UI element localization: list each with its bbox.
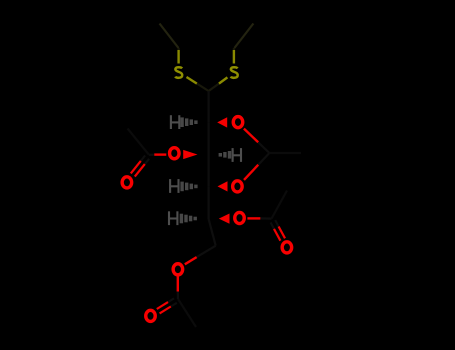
acetyl C3' C=O double bond line 2 red part [131,161,141,174]
bold wedge C4-O4 [218,181,228,191]
bond O2-CH(ring) dark half [258,142,269,153]
ethyl CH2-S2 bond dark half [233,48,235,50]
bold wedge C3-O3 [183,150,197,159]
bond O4-CH(ring) red half [244,165,258,180]
bond O3-C3' red part [154,153,166,155]
bond O6-C6' dark half [177,292,179,300]
acetyl C6' methyl wire [178,299,196,327]
sulfur S1 [175,67,182,78]
hydrogen H3 label [233,148,241,162]
acetyl C3' C=O double bond line 2 dark part [141,156,145,161]
ring CH methyl wire [269,152,301,154]
hashed wedge C2-H2 [180,117,197,127]
acetyl C5' methyl wire [272,191,288,219]
bond O5-C5' red half [247,217,260,219]
sulfur S2 [231,67,238,78]
ethyl CH3 (left) wire [160,24,179,49]
ethyl CH2-S1 bond olive half [177,50,179,64]
bond C4-C5 wire [208,186,210,219]
acetyl C3' C=O double bond line 1 red part [135,164,145,177]
bond O5-C5' dark half [260,217,271,219]
acetyl C6' C=O double bond line 1 dark part [171,303,177,307]
oxygen O3 [170,148,180,159]
ethyl CH3 (right) wire [234,24,253,49]
hashed wedge C5-H5 [180,214,197,224]
acetyl C5' C=O double bond line 1 dark part [275,220,278,226]
ethyl CH2-S2 bond olive half [233,50,235,64]
bond S2-C1 olive half [219,77,228,83]
oxygen O5 [235,212,245,223]
bond S2-C1 dark half [209,84,219,91]
acetyl C5' C=O double bond line 2 dark part [271,223,274,229]
oxygen O3' (carbonyl) [122,177,131,188]
bond O2-CH(ring) red half [244,129,258,143]
hashed wedge C4-H4 [180,182,197,192]
acetyl C3' C=O double bond line 1 dark part [145,159,149,164]
acetyl C6' C=O double bond line 2 dark part [168,298,174,302]
bond O3-C3' dark part [149,154,155,156]
bond C6-O6 red half [185,257,197,264]
acetyl C5' C=O double bond line 2 red part [274,229,280,241]
bold wedge C2-O2 [217,117,227,127]
bond S1-C1 olive half [187,77,197,84]
bold wedge C5-O5 [219,214,230,224]
acetyl C5' C=O double bond line 1 red part [279,227,285,239]
hydrogen H2 label [171,115,179,129]
bond C1-C2 wire [208,91,210,122]
bond C5-C6 wire [209,219,216,246]
oxygen O2 [233,117,243,128]
bond C6-O6 dark half [197,246,216,257]
oxygen O5' (carbonyl) [282,242,292,253]
acetyl C6' C=O double bond line 1 red part [160,307,171,314]
ethyl CH2-S1 bond upper dark half [178,48,180,50]
oxygen O6 [173,264,183,275]
bond C3-C4 wire [208,155,210,187]
hashed wedge C3-H3 [219,150,234,160]
hydrogen H4 label [170,179,178,193]
bond C2-C3 wire [208,122,210,154]
acetyl C6' C=O double bond line 2 red part [157,302,168,309]
oxygen O4 [233,181,243,192]
acetyl C3' methyl wire [128,129,150,155]
bond S1-C1 dark half [197,84,209,91]
bond O6-C6' red half [177,277,179,292]
bond O4-CH(ring) dark half [258,153,269,165]
oxygen O6' (carbonyl) [146,310,156,321]
hydrogen H5 label [169,211,177,225]
